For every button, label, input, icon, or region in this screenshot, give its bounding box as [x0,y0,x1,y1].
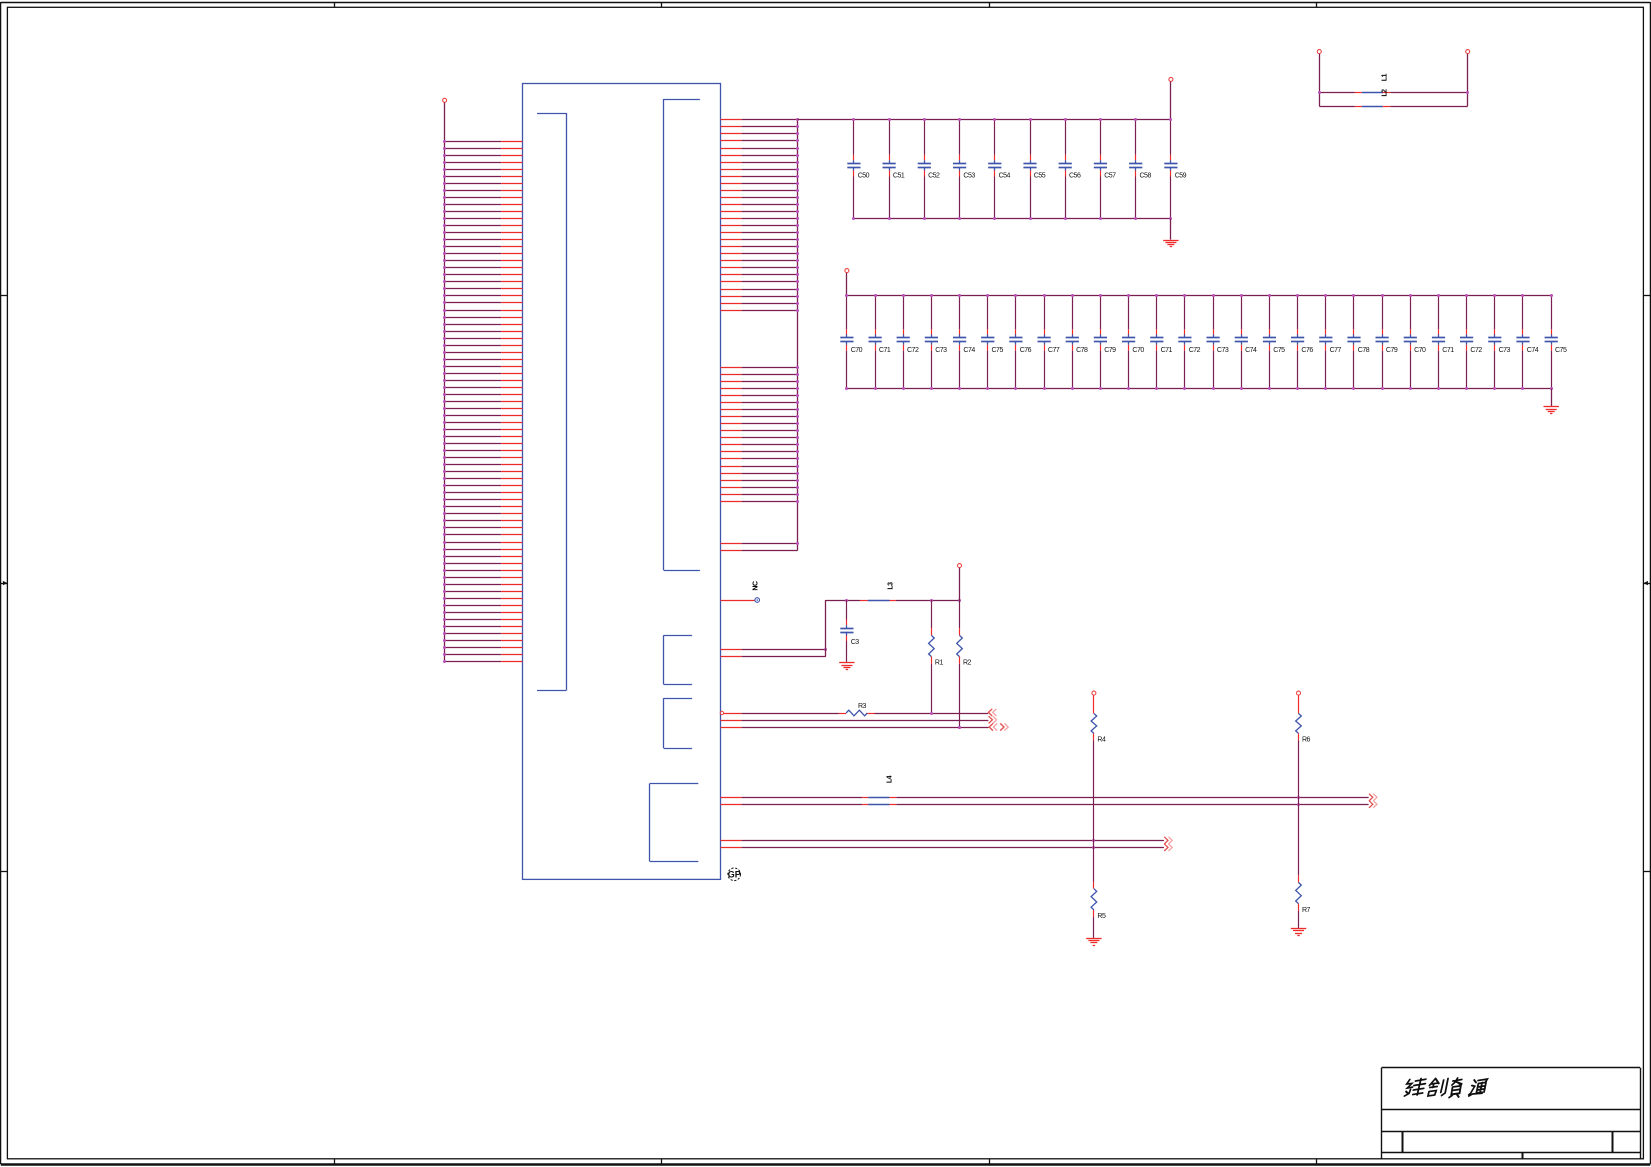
svg-text:C79: C79 [1104,347,1116,354]
capacitor C76 (bank2) [1009,294,1031,390]
U1 inner left bracket [537,113,567,691]
svg-text:C75: C75 [992,347,1004,354]
capacitor C718 (bank2) [1347,294,1369,390]
capacitor C59 (bank1) [1164,118,1186,220]
svg-text:C54: C54 [999,173,1011,180]
column wire down through A/B [1298,740,1300,875]
capacitor C713 (bank2) [1207,294,1229,390]
capacitor C712 (bank2) [1178,294,1200,390]
svg-text:R4: R4 [1097,737,1106,744]
wire B with bead L5 [721,801,1378,808]
svg-text:C76: C76 [1020,347,1032,354]
svg-text:C53: C53 [963,173,975,180]
svg-text:C55: C55 [1034,173,1046,180]
capacitor C53 (bank1) [953,118,975,220]
wire to ground [1298,911,1300,928]
wire to ground [1093,917,1095,938]
ground below C3 [839,662,854,664]
capacitor C50 (bank1) [847,118,869,220]
svg-text:C3: C3 [851,639,860,646]
cap bank2 top rail wire [847,295,1551,297]
border zone ticks bottom edge [335,1159,1317,1164]
capacitor C710 (bank2) [1122,294,1144,390]
wire2 with right chevron [721,716,997,723]
capacitor C3 to ground [840,600,859,662]
svg-text:R2: R2 [963,660,972,667]
capacitor C79 (bank2) [1094,294,1116,390]
wire C to chevron [721,837,1173,844]
border zone ticks left edge with centre arrow [1,296,8,872]
capacitor C57 (bank1) [1094,118,1116,220]
svg-text:C71: C71 [1442,347,1454,354]
right bus group2 junction dots [796,366,799,503]
svg-text:C58: C58 [1140,173,1152,180]
ferrite bead L2 (lower) [1319,89,1467,107]
power port P2 top-right right [1466,50,1470,107]
svg-text:L3: L3 [888,582,895,590]
power port P1 top-right left [1317,50,1321,107]
capacitor C715 (bank2) [1263,294,1285,390]
title block frame [1382,1068,1641,1159]
op IC U1 body outline [523,84,721,880]
wire from bracketA pin2 [721,656,826,658]
U1 right pin pair lower [721,542,800,551]
cap bank2 bottom rail wire [847,388,1551,390]
capacitor C721 (bank2) [1432,294,1454,390]
svg-text:C77: C77 [1330,347,1342,354]
svg-text:L1: L1 [1382,74,1389,82]
svg-text:C72: C72 [1189,347,1201,354]
left bus vertical wire [444,103,446,662]
svg-text:C56: C56 [1069,173,1081,180]
resistor R4 [1091,695,1106,743]
resistor R7 [1296,875,1311,914]
svg-text:R1: R1 [935,660,944,667]
wire1 with series resistor R3 and left chevron [720,703,996,716]
resistor R6 [1296,695,1311,743]
svg-text:C73: C73 [1499,347,1511,354]
svg-text:C52: C52 [928,173,940,180]
svg-text:R3: R3 [858,703,867,710]
capacitor C722 (bank2) [1460,294,1482,390]
capacitor C78 (bank2) [1066,294,1088,390]
svg-text:C75: C75 [1273,347,1285,354]
capacitor C720 (bank2) [1404,294,1426,390]
resistor R1 vertical [929,600,944,713]
U1 designator GP [728,868,741,881]
resistor R2 vertical [957,600,972,729]
ferrite bead L1 (upper) [1318,74,1469,94]
capacitor C70 (bank2) [840,294,862,390]
capacitor C55 (bank1) [1023,118,1045,220]
capacitor C71 (bank2) [869,294,891,390]
svg-text:C73: C73 [935,347,947,354]
capacitor C719 (bank2) [1376,294,1398,390]
svg-text:R7: R7 [1302,907,1311,914]
svg-text:C72: C72 [1470,347,1482,354]
svg-text:R5: R5 [1097,913,1106,920]
ground below cap bank1 [1163,219,1178,247]
power port at top of left bus [443,98,447,102]
node wire with bead L3 [826,582,961,602]
logo text 緯創資通 [1404,1078,1488,1098]
capacitor C77 (bank2) [1038,294,1060,390]
ground below cap bank2 [1544,389,1559,414]
cap bank1 bottom rail wire [854,218,1171,220]
U1 left pins (75 wires to bus) [445,142,523,662]
svg-text:C78: C78 [1358,347,1370,354]
svg-text:C76: C76 [1301,347,1313,354]
capacitor C72 (bank2) [897,294,919,390]
power port above R6 column [1297,691,1301,695]
left bus junction dots [443,140,446,663]
svg-text:C74: C74 [1527,347,1539,354]
svg-text:C51: C51 [893,173,905,180]
capacitor C714 (bank2) [1235,294,1257,390]
svg-text:L2: L2 [1382,89,1389,97]
power port above R2 [958,564,962,600]
border zone ticks top edge [335,2,1317,7]
column wire down through C/D [1093,740,1095,881]
U1 right pins group1 (28) [721,120,798,311]
resistor R5 [1091,882,1106,921]
svg-text:R6: R6 [1302,737,1311,744]
capacitor C58 (bank1) [1129,118,1151,220]
capacitor C56 (bank1) [1059,118,1081,220]
svg-text:C71: C71 [879,347,891,354]
capacitor C711 (bank2) [1150,294,1172,390]
U1 inner small bracket B [664,698,693,748]
vertical joining wire [825,600,827,656]
svg-text:C50: C50 [858,173,870,180]
ground below R7 [1291,928,1306,930]
capacitor C75 (bank2) [981,294,1003,390]
svg-text:C73: C73 [1217,347,1229,354]
capacitor C51 (bank1) [883,118,905,220]
svg-text:C74: C74 [1245,347,1257,354]
capacitor C73 (bank2) [925,294,947,390]
capacitor C74 (bank2) [953,294,975,390]
svg-text:C75: C75 [1555,347,1567,354]
wire A with bead L4 [721,775,1378,801]
power port above cap bank1 [1169,77,1173,119]
cap bank1 top rail wire [798,119,1171,121]
svg-text:C57: C57 [1104,173,1116,180]
svg-text:C71: C71 [1161,347,1173,354]
svg-text:L4: L4 [887,775,894,783]
capacitor C724 (bank2) [1516,294,1538,390]
ground below R5 [1086,938,1101,940]
svg-text:NC: NC [753,581,760,591]
wire D to chevron [721,844,1173,851]
svg-text:C77: C77 [1048,347,1060,354]
capacitor C52 (bank1) [918,118,940,220]
border zone ticks right edge with centre arrow [1643,296,1650,872]
right bus vertical wire [797,120,799,551]
capacitor C54 (bank1) [988,118,1010,220]
U1 inner right tall bracket [664,99,700,571]
wire from bracketA pin1 [721,648,828,651]
svg-text:C79: C79 [1386,347,1398,354]
svg-text:C70: C70 [851,347,863,354]
capacitor C717 (bank2) [1319,294,1341,390]
right bus group1 junction dots [796,118,799,312]
capacitor C723 (bank2) [1488,294,1510,390]
capacitor C725 (bank2) [1545,294,1567,390]
wire3 bidirectional chevrons [721,723,1009,730]
power port above cap bank2 [845,269,849,296]
U1 right pins group2 (20) [721,368,798,502]
svg-text:C78: C78 [1076,347,1088,354]
capacitor C716 (bank2) [1291,294,1313,390]
svg-text:C74: C74 [963,347,975,354]
U1 inner small bracket A [664,635,693,684]
power port above R4 column [1092,691,1096,695]
svg-text:C70: C70 [1414,347,1426,354]
svg-text:C70: C70 [1132,347,1144,354]
U1 no-connect pin with socket symbol [721,581,760,602]
svg-text:GP: GP [728,870,741,880]
svg-text:C72: C72 [907,347,919,354]
svg-text:C59: C59 [1175,173,1187,180]
U1 inner bottom bracket [650,784,699,862]
